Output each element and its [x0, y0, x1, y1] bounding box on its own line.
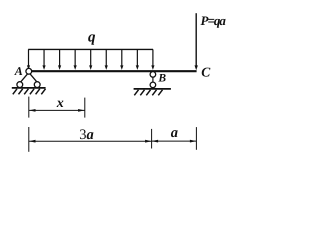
svg-text:A: A: [14, 64, 23, 78]
svg-text:B: B: [157, 72, 166, 84]
svg-text:x: x: [56, 96, 64, 111]
svg-text:3a: 3a: [79, 127, 94, 143]
svg-text:C: C: [201, 64, 211, 79]
svg-text:a: a: [171, 125, 178, 141]
svg-text:P=qa: P=qa: [201, 13, 227, 28]
svg-text:q: q: [88, 30, 96, 46]
